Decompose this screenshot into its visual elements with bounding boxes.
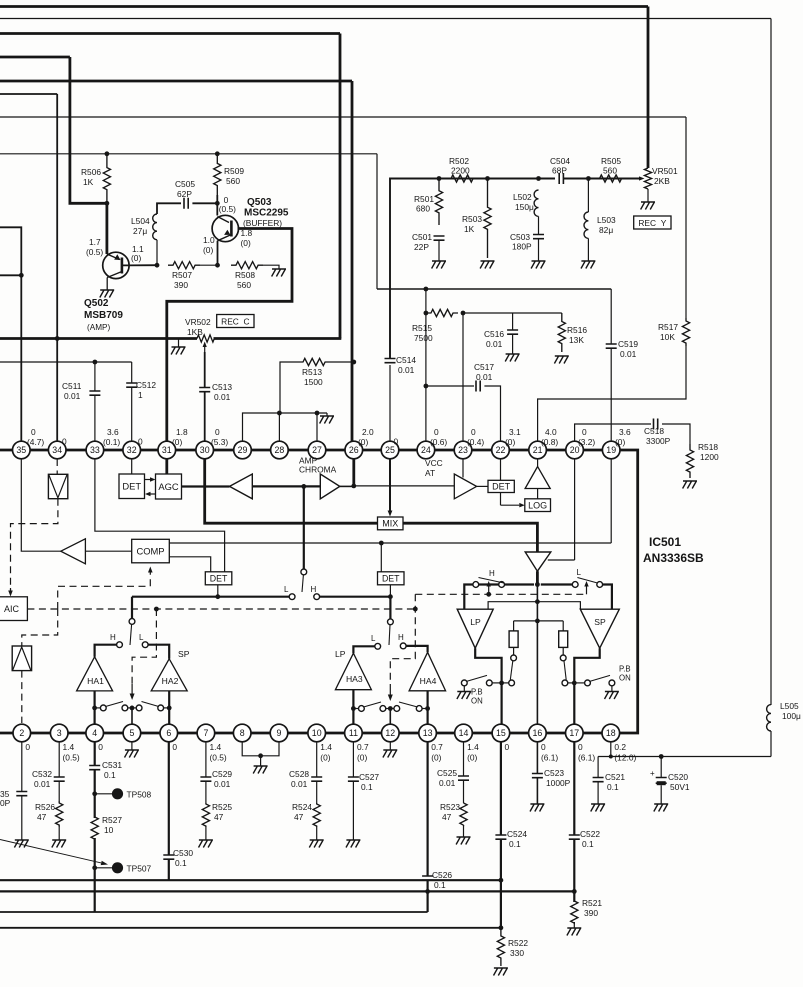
- resistor R517: [682, 318, 689, 346]
- resistor internal left (box style): [509, 631, 518, 648]
- resistor R507: [168, 262, 200, 269]
- svg-text:(6.1): (6.1): [578, 753, 595, 763]
- junction res pair: [535, 619, 540, 624]
- wire MIX to switch tree: [403, 523, 537, 552]
- block DET1: [205, 572, 232, 585]
- pin 16 of IC501: [529, 724, 547, 742]
- wire C511 to pin 33: [94, 395, 96, 441]
- wire H contact to LP: [464, 585, 473, 610]
- wire L504 top to C505: [157, 203, 181, 214]
- capacitor C501: [434, 236, 445, 240]
- svg-text:3: 3: [57, 728, 62, 738]
- svg-text:ON: ON: [471, 697, 483, 706]
- wire pin 4 chain: [94, 742, 96, 766]
- svg-text:47: 47: [37, 812, 47, 822]
- junction R515 left: [424, 311, 429, 316]
- svg-text:68P: 68P: [552, 166, 567, 176]
- svg-text:7500: 7500: [414, 333, 433, 343]
- svg-text:H: H: [489, 569, 495, 578]
- wire Q502 collector down: [106, 278, 108, 291]
- svg-text:47: 47: [442, 812, 452, 822]
- svg-text:27: 27: [312, 445, 322, 455]
- svg-text:0P: 0P: [0, 798, 11, 808]
- svg-text:100μ: 100μ: [782, 711, 801, 721]
- svg-text:(0.4): (0.4): [467, 437, 484, 447]
- pin 7 of IC501: [197, 724, 215, 742]
- pin 29 of IC501: [234, 441, 252, 459]
- svg-text:(0): (0): [172, 437, 182, 447]
- junction C505 node: [215, 201, 220, 206]
- contact pb pole left: [486, 680, 492, 686]
- svg-text:1K: 1K: [464, 224, 475, 234]
- wire DET to LOG elbow: [500, 493, 502, 506]
- contact L ha2: [142, 642, 148, 648]
- svg-text:R522: R522: [508, 938, 528, 948]
- svg-text:13K: 13K: [569, 335, 584, 345]
- svg-text:1500: 1500: [304, 377, 323, 387]
- wire R521 to ground: [573, 922, 575, 928]
- wire C516 riser: [512, 313, 514, 330]
- svg-text:560: 560: [226, 176, 240, 186]
- capacitor C525: [458, 776, 469, 780]
- wire mid feed line: [487, 601, 489, 603]
- junction pin35 stub: [19, 273, 24, 278]
- svg-text:H: H: [311, 585, 317, 594]
- wire bridge to ground: [260, 756, 262, 766]
- svg-text:560: 560: [237, 280, 251, 290]
- junction R506 top: [105, 151, 110, 156]
- svg-text:Q503: Q503: [247, 197, 272, 208]
- resistor R501: [435, 179, 442, 226]
- svg-text:0: 0: [582, 427, 587, 437]
- ground R526: [52, 840, 66, 848]
- wire bus D drop to R506 node: [70, 57, 107, 203]
- svg-text:C514: C514: [396, 355, 416, 365]
- contact row ha3: [359, 706, 365, 712]
- wire C519 to pin 19: [610, 348, 612, 441]
- svg-text:R516: R516: [567, 325, 587, 335]
- resistor R505: [598, 175, 623, 182]
- svg-text:L502: L502: [513, 192, 532, 202]
- junction tri bus: [535, 582, 540, 587]
- junction pin15 bus1: [499, 878, 504, 883]
- svg-text:C517: C517: [474, 362, 494, 372]
- wire R508 to ground: [263, 265, 279, 269]
- wire pin 34 dashed: [56, 459, 58, 474]
- wire row ha3: [353, 708, 358, 710]
- lever pb switch right: [590, 675, 610, 681]
- amplifier SP: [580, 609, 619, 648]
- svg-text:30: 30: [200, 445, 210, 455]
- wire pin 22 to DET: [500, 459, 502, 480]
- arrow AGC to DET: [145, 492, 156, 496]
- wire IC top pin row: [0, 449, 611, 452]
- svg-text:R526: R526: [35, 802, 55, 812]
- junction ha1 row: [92, 706, 97, 711]
- pin 9 of IC501: [270, 724, 288, 742]
- ground C527: [346, 840, 360, 848]
- wire chroma to det amp: [354, 485, 455, 487]
- inductor L502: [534, 190, 538, 216]
- wire pin 21 internal: [537, 459, 539, 467]
- dashed lp sp spine: [415, 593, 586, 595]
- junction pin23 riser top: [461, 311, 466, 316]
- resistor R522: [497, 928, 504, 966]
- lever row ha4: [399, 702, 418, 707]
- wire REC C line: [0, 337, 197, 340]
- wire tri to LOG: [537, 489, 539, 499]
- inductor L505: [767, 705, 771, 731]
- wire bus C drop to REC C line: [339, 34, 342, 339]
- junction pin34 REC C: [55, 336, 60, 341]
- capacitor C530: [163, 855, 174, 859]
- svg-text:L: L: [371, 634, 376, 643]
- contact H ha12: [314, 594, 320, 600]
- junction TP507: [92, 865, 97, 870]
- svg-text:R515: R515: [412, 323, 432, 333]
- arrow dashed into COMP: [148, 567, 153, 587]
- wire C520 riser: [660, 757, 662, 778]
- wire pin 33 to DET1 right feed: [95, 459, 225, 572]
- svg-text:13: 13: [423, 728, 433, 738]
- resistor R518: [686, 444, 693, 478]
- junction ha4 row: [425, 706, 430, 711]
- dashed to box2: [22, 609, 58, 646]
- svg-text:HA3: HA3: [346, 674, 363, 684]
- wire down tri to bus: [536, 571, 539, 584]
- wire L503 riser: [587, 179, 589, 213]
- block DET agc: [119, 474, 145, 499]
- wire HA4 out: [427, 691, 429, 724]
- svg-text:R527: R527: [102, 815, 122, 825]
- pin 14 of IC501: [455, 724, 473, 742]
- wire pin 12 to ground: [389, 742, 391, 750]
- svg-text:(0): (0): [357, 753, 367, 763]
- ground R523: [456, 837, 470, 845]
- wire R517 riser: [685, 117, 687, 318]
- svg-text:15: 15: [496, 728, 506, 738]
- svg-text:0.01: 0.01: [214, 779, 231, 789]
- lever pb left: [510, 661, 513, 680]
- ground C520: [654, 804, 668, 812]
- wire top bus B: [0, 18, 771, 20]
- wire pin24 riser: [425, 289, 427, 441]
- svg-text:(0): (0): [241, 238, 251, 248]
- amplifier pin35: [61, 539, 86, 564]
- resistor R525: [202, 803, 209, 827]
- inductor L504: [153, 214, 157, 240]
- junction dashed lp: [486, 592, 491, 597]
- capacitor C519: [606, 344, 617, 348]
- lever chroma switch: [302, 575, 303, 592]
- svg-text:4.0: 4.0: [545, 427, 557, 437]
- junction Q503 emitter node: [215, 263, 220, 268]
- contact pb pole right: [585, 680, 591, 686]
- wire C530 to bus: [168, 859, 170, 880]
- pin 11 of IC501: [345, 724, 363, 742]
- svg-text:22P: 22P: [414, 242, 429, 252]
- svg-text:1000P: 1000P: [546, 778, 571, 788]
- junction DET2 out: [388, 594, 393, 599]
- potentiometer VR502: [197, 335, 214, 342]
- wire L503 to ground: [587, 238, 589, 261]
- svg-text:C531: C531: [102, 760, 122, 770]
- wire TP507 stub: [95, 867, 112, 869]
- wire pin 5 to ground: [131, 742, 133, 750]
- ground C535: [14, 840, 28, 848]
- transistor Q503: [212, 215, 238, 241]
- svg-text:C503: C503: [510, 232, 530, 242]
- pin 30 of IC501: [196, 441, 214, 459]
- wire SP output: [574, 648, 599, 724]
- resistor R523: [460, 803, 467, 825]
- contact pb right top: [560, 655, 566, 661]
- lever L switch: [577, 578, 597, 584]
- wire C527 to ground: [352, 781, 354, 840]
- contact row ha1b: [122, 705, 128, 711]
- amplifier chroma: [320, 474, 340, 499]
- wire DET1 bottom: [217, 585, 219, 597]
- wire C525 to R523: [463, 780, 465, 803]
- wire amp to COMP: [85, 550, 131, 552]
- wire pin20 to down tri: [548, 559, 575, 561]
- pin 26 of IC501: [345, 441, 363, 459]
- svg-text:25: 25: [385, 445, 395, 455]
- wire C529 to R525: [205, 781, 207, 803]
- svg-text:10K: 10K: [660, 332, 675, 342]
- junction C520: [659, 754, 664, 759]
- svg-text:0.01: 0.01: [620, 349, 637, 359]
- pin 35 of IC501: [12, 441, 30, 459]
- svg-text:TP507: TP507: [127, 864, 152, 874]
- svg-text:12: 12: [385, 728, 395, 738]
- wire C520 to ground: [660, 785, 662, 804]
- junction pin27 net: [315, 411, 320, 416]
- wire pin 6 chain: [168, 742, 170, 855]
- junction det2 feed: [379, 541, 384, 546]
- svg-text:(0.5): (0.5): [63, 753, 80, 763]
- wire filter line right of C504: [563, 178, 641, 180]
- svg-text:R507: R507: [172, 270, 192, 280]
- wire ha12 pole to pin 5: [131, 708, 133, 724]
- wire VR502 left ground stub: [178, 339, 180, 348]
- svg-text:C524: C524: [507, 829, 527, 839]
- svg-text:0.01: 0.01: [291, 779, 308, 789]
- svg-text:1.0: 1.0: [203, 235, 215, 245]
- wire Q502 base out: [122, 264, 157, 266]
- svg-text:0: 0: [138, 437, 143, 447]
- pin 18 of IC501: [602, 724, 620, 742]
- wire top bus C: [0, 32, 340, 35]
- svg-text:R517: R517: [658, 322, 678, 332]
- svg-text:(0): (0): [467, 753, 477, 763]
- arrow dashed H switch: [487, 581, 491, 594]
- wire pin 35 to amp: [21, 459, 61, 551]
- junction C511 top: [93, 360, 98, 365]
- pin 4 of IC501: [86, 724, 104, 742]
- wire R523 to ground: [463, 825, 465, 837]
- wire COMP out to pins19-20: [169, 542, 611, 544]
- amplifier HA4: [409, 652, 446, 691]
- svg-text:0.1: 0.1: [104, 770, 116, 780]
- junction dashed ha34: [413, 607, 418, 612]
- svg-text:R523: R523: [440, 802, 460, 812]
- svg-text:(AMP): (AMP): [87, 323, 110, 332]
- wire pin 2 chain: [21, 742, 23, 792]
- inductor L503: [584, 212, 588, 238]
- wire pin 31 to AGC: [165, 459, 168, 474]
- capacitor C520 electrolytic: [650, 769, 667, 785]
- wire R506 bottom to Q502 emitter: [106, 203, 109, 254]
- svg-text:C518: C518: [644, 426, 664, 436]
- wire C516 to ground: [512, 334, 514, 354]
- lever H switch: [479, 578, 504, 584]
- svg-text:18: 18: [606, 728, 616, 738]
- wire pins 8 9 bridge: [242, 742, 279, 756]
- svg-text:L: L: [139, 633, 144, 642]
- wire pin 13 chain: [427, 742, 429, 876]
- wire pin 20 internal drop: [574, 459, 576, 560]
- wire C517 to pin 22: [484, 386, 500, 441]
- wire bus H drop: [376, 154, 378, 289]
- wire pin13 to y913 line: [427, 891, 429, 912]
- resistor R509: [214, 154, 221, 195]
- svg-text:(0): (0): [203, 245, 213, 255]
- ground C501: [432, 261, 446, 269]
- wire DET2 top feed: [380, 543, 382, 572]
- svg-text:H: H: [398, 633, 404, 642]
- lever row ha1: [106, 702, 124, 707]
- capacitor C524: [495, 835, 506, 839]
- svg-text:(0): (0): [615, 437, 625, 447]
- svg-text:P.B: P.B: [471, 688, 483, 697]
- svg-text:LP: LP: [470, 617, 481, 627]
- contact L ha3: [375, 643, 381, 649]
- pin 32 of IC501: [123, 441, 141, 459]
- svg-text:MSB709: MSB709: [84, 310, 123, 321]
- svg-text:C523: C523: [544, 768, 564, 778]
- ground VR502: [171, 347, 185, 355]
- wire pin 32 to DET: [131, 459, 133, 474]
- pin 15 of IC501: [492, 724, 510, 742]
- lever pb switch left: [467, 675, 488, 681]
- arrow dashed L switch: [584, 581, 588, 594]
- wire C532 to R526: [58, 781, 60, 801]
- svg-text:29: 29: [238, 445, 248, 455]
- svg-text:CHROMA: CHROMA: [299, 465, 337, 475]
- wire pb gnd left: [463, 686, 465, 692]
- pin 22 of IC501: [492, 441, 510, 459]
- svg-text:0.1: 0.1: [509, 839, 521, 849]
- svg-text:TP508: TP508: [127, 790, 152, 800]
- ground pin 12: [383, 750, 397, 758]
- svg-text:50V1: 50V1: [670, 782, 690, 792]
- svg-text:0.01: 0.01: [486, 339, 503, 349]
- svg-text:AIC: AIC: [4, 604, 20, 614]
- svg-text:(0): (0): [358, 437, 368, 447]
- wire R527 down: [94, 838, 96, 912]
- svg-text:33: 33: [90, 445, 100, 455]
- wire R525 to ground: [205, 827, 207, 840]
- svg-text:0: 0: [62, 437, 67, 447]
- svg-text:L503: L503: [597, 215, 616, 225]
- wire top bus F: [0, 93, 57, 95]
- svg-text:0.01: 0.01: [34, 779, 51, 789]
- ground R518: [683, 481, 697, 489]
- svg-text:390: 390: [174, 280, 188, 290]
- contact H right: [499, 582, 505, 588]
- wire L502 to C503: [538, 216, 540, 234]
- wire VR502 wiper to C513: [204, 352, 206, 388]
- wire bus H to R506 R509: [0, 153, 377, 155]
- lever ha12 pole: [130, 624, 132, 645]
- junction ha34 row pole: [388, 706, 393, 711]
- contact row ha3b: [380, 706, 386, 712]
- svg-text:HA4: HA4: [420, 676, 437, 686]
- capacitor C521: [593, 778, 604, 782]
- svg-text:+: +: [650, 769, 655, 778]
- pin 33 of IC501: [86, 441, 104, 459]
- arrow to TP507: [0, 840, 108, 866]
- wire pb gnd right: [611, 686, 613, 692]
- wire C501 to ground: [438, 240, 440, 261]
- wire REC C line right: [214, 337, 342, 340]
- wire C521 to ground: [597, 782, 599, 804]
- block AIC: [0, 597, 27, 621]
- wire LP output: [475, 648, 501, 724]
- ground R522: [494, 968, 508, 976]
- wire C524 down: [500, 839, 502, 928]
- wire net to ground stub: [326, 413, 328, 416]
- svg-text:3.6: 3.6: [107, 427, 119, 437]
- svg-text:LOG: LOG: [528, 500, 547, 510]
- wire R515 line to R516: [463, 312, 562, 314]
- ground L503: [581, 261, 595, 269]
- svg-text:(0): (0): [131, 253, 141, 263]
- ground C516: [505, 354, 519, 362]
- wire pin24 net line: [377, 288, 611, 290]
- bus line y913: [0, 911, 428, 913]
- arrow dashed ha34 pole: [388, 684, 393, 701]
- pin 6 of IC501: [160, 724, 178, 742]
- svg-text:C532: C532: [32, 769, 52, 779]
- wire R509 to C505 node: [216, 195, 218, 216]
- svg-text:0.01: 0.01: [439, 778, 456, 788]
- svg-text:DET: DET: [382, 574, 400, 584]
- svg-text:H: H: [110, 633, 116, 642]
- svg-text:0: 0: [31, 427, 36, 437]
- svg-text:28: 28: [275, 445, 285, 455]
- wire pin 19 internal drop: [610, 459, 612, 543]
- contact L left: [572, 582, 578, 588]
- wire lp sp common: [488, 602, 580, 610]
- svg-text:(0.6): (0.6): [430, 437, 447, 447]
- bus line y880: [0, 879, 501, 881]
- wire row ha2 join: [164, 707, 170, 709]
- svg-text:34: 34: [52, 445, 62, 455]
- wire pb contact join left: [502, 682, 509, 684]
- wire pin27 drop: [316, 413, 318, 441]
- svg-text:REC Y: REC Y: [638, 218, 666, 228]
- wiper VR501: [623, 176, 645, 180]
- contact row ha2: [158, 705, 164, 711]
- svg-text:1.4: 1.4: [467, 742, 479, 752]
- capacitor C518: [654, 419, 658, 430]
- wire pb contact join right: [568, 682, 575, 684]
- junction pin28 net: [277, 411, 282, 416]
- ground VR501: [641, 202, 655, 210]
- junction R503 top: [485, 176, 490, 181]
